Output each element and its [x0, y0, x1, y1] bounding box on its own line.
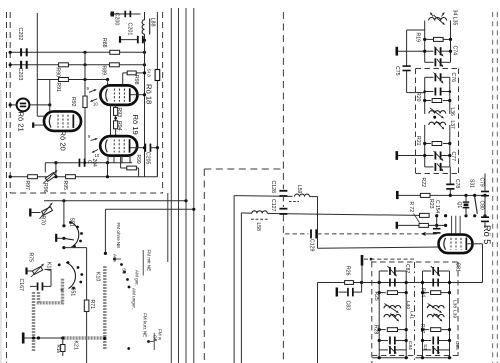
junction dots R21 — [423, 142, 451, 145]
resistor R26 — [318, 266, 362, 284]
resistor R72 — [396, 202, 446, 229]
junction dot x=49.8 — [48, 103, 51, 106]
resistor R90 — [55, 63, 69, 77]
svg-text:C85: C85 — [454, 341, 460, 350]
potentiometer R70 — [29, 203, 52, 226]
svg-text:Si 3: Si 3 — [146, 69, 152, 78]
junction dot C201 node — [143, 39, 146, 42]
svg-text:C80: C80 — [479, 201, 485, 210]
svg-text:R93: R93 — [116, 108, 122, 118]
label FM w — [154, 329, 162, 350]
svg-text:L41: L41 — [409, 311, 415, 319]
svg-text:C76: C76 — [450, 73, 456, 83]
resistor R71 — [84, 300, 95, 312]
dashed box L36 right — [458, 69, 460, 174]
svg-text:C78: C78 — [454, 179, 460, 188]
ground wire y=338 — [25, 337, 64, 339]
svg-text:R21: R21 — [415, 136, 421, 146]
capacitor C201 — [119, 23, 144, 44]
wire y=176.7 — [10, 176, 157, 178]
svg-text:R71: R71 — [89, 300, 95, 310]
svg-text:R91: R91 — [55, 83, 61, 93]
vertical wire x=37 — [37, 13, 45, 116]
junction dots C76 — [423, 90, 451, 93]
vertical wire x=49.8 — [49, 80, 51, 112]
Ro19 anode wire to C205 — [130, 147, 145, 149]
wire W2 y=213 — [241, 212, 252, 214]
junction dot between R93 R94 — [114, 117, 117, 120]
junction dot end wire x=105.4 — [104, 252, 107, 255]
svg-text:C79: C79 — [479, 178, 485, 187]
inductor L39 — [427, 314, 444, 322]
Ro19 cathode pins — [108, 156, 130, 163]
wire x=317.5 down — [317, 283, 319, 363]
label FM mit NE — [143, 250, 151, 276]
node dot on border wire y=65 — [9, 63, 12, 66]
wire y=162.7 — [45, 162, 132, 164]
block middle dash-dot divider — [414, 262, 416, 363]
rail x=157.4 — [156, 12, 158, 177]
shield box right dashed edge — [162, 12, 164, 193]
svg-text:R99: R99 — [135, 155, 141, 164]
junction dot x=107.5 y=176.7 — [106, 175, 109, 178]
resistor R21 — [415, 136, 450, 146]
inductor L37 — [429, 121, 455, 130]
C75 feed wire — [407, 30, 425, 66]
junction dot x=144.5 y=65 — [143, 63, 146, 66]
svg-text:L38: L38 — [451, 300, 457, 308]
grid arrow at Ro5 — [421, 232, 437, 236]
svg-text:R23: R23 — [428, 199, 434, 209]
svg-text:Off: Off — [153, 335, 158, 342]
capacitor C 154 — [433, 200, 441, 234]
inductor L59 — [289, 185, 318, 202]
svg-text:Rö 20: Rö 20 — [59, 131, 68, 151]
potentiometer R75 — [25, 253, 44, 278]
grid T-bar at Ro20 — [32, 122, 45, 127]
junction dot x=107.6 y=80 — [106, 78, 109, 85]
trimmer C74 lower — [425, 46, 458, 68]
svg-text:C74: C74 — [452, 46, 458, 56]
tube Ro5 top pins — [452, 216, 461, 235]
junction dots main wire right — [421, 281, 451, 284]
junction dot x=63.9 y=200.8 — [62, 199, 65, 202]
svg-text:Rö 5: Rö 5 — [482, 225, 492, 244]
resistor R91 — [55, 78, 68, 93]
resistor R27 — [421, 328, 451, 332]
wire x=86.6 to bottom — [86, 312, 88, 363]
pin arrow 9 at Ro18 — [87, 86, 97, 92]
svg-text:L40: L40 — [405, 301, 411, 309]
junction dots C77 — [423, 154, 451, 157]
cable gray left — [32, 292, 35, 352]
trimmer C77 upper — [425, 151, 450, 161]
shield box left inner dashed border — [9, 12, 11, 193]
capacitor C80 — [479, 201, 490, 229]
svg-text:S51: S51 — [69, 218, 75, 227]
svg-text:C83: C83 — [345, 301, 351, 311]
dashed box L36 left — [415, 69, 417, 174]
svg-text:R20: R20 — [415, 92, 421, 102]
svg-text:R26: R26 — [345, 266, 351, 276]
main wire y=282.5 — [362, 282, 483, 284]
svg-text:C203: C203 — [17, 68, 23, 81]
vertical rail x=85 — [84, 52, 86, 162]
resistor R23 — [420, 199, 435, 217]
svg-text:C200: C200 — [114, 13, 120, 26]
svg-text:S31: S31 — [468, 179, 474, 188]
trimmer C76 upper — [425, 73, 450, 84]
ground bar C77 wire — [396, 151, 425, 160]
svg-text:R94: R94 — [116, 121, 122, 131]
resistor R89 — [101, 63, 120, 75]
svg-text:34 L35: 34 L35 — [452, 10, 458, 26]
shield box left outer dashed border — [6, 12, 8, 363]
svg-text:C75: C75 — [394, 66, 400, 76]
center dashed line x=283.4 upper — [282, 12, 284, 189]
svg-text:L58: L58 — [255, 223, 261, 232]
dashed box L36 top — [416, 68, 459, 70]
svg-text:S51: S51 — [70, 287, 76, 296]
inductor L38 — [427, 304, 444, 314]
dash-dot box top edge y=169 — [204, 168, 283, 170]
resistor R25 — [378, 291, 408, 295]
svg-text:C205: C205 — [144, 152, 150, 165]
svg-text:10: 10 — [93, 102, 98, 107]
junction dot R98 rail — [143, 71, 146, 74]
dashed box L36 bottom — [416, 173, 459, 175]
svg-text:R25: R25 — [373, 292, 379, 301]
capacitor C 204 — [79, 159, 97, 168]
svg-text:10: 10 — [95, 153, 100, 158]
svg-text:FM ohne NE: FM ohne NE — [116, 223, 121, 249]
svg-text:C84: C84 — [407, 341, 413, 350]
bus line 4 — [193, 8, 195, 363]
dashed wire C129 to grid — [317, 233, 419, 235]
wire top-left y=52 — [10, 51, 144, 53]
wire stub C200 — [110, 13, 141, 15]
junction dot x=107.5 y=162.7 — [106, 161, 109, 164]
capacitor C200 — [111, 11, 132, 26]
wire y=80 grid feed — [37, 79, 107, 81]
svg-text:R22: R22 — [420, 178, 426, 188]
cap pair lower C84 — [378, 337, 408, 345]
wire W2 continues right — [287, 214, 420, 216]
tube Ro21 magic eye — [17, 99, 30, 132]
tube Ro20 — [44, 111, 81, 150]
svg-text:R97: R97 — [24, 181, 30, 191]
svg-text:R27: R27 — [419, 324, 425, 333]
pin arrow 10 at Ro18 — [90, 99, 99, 107]
wire y=195.4 — [396, 191, 485, 199]
resistor R92 — [70, 96, 87, 108]
inductor L36 — [429, 108, 455, 119]
cap pair bottom C85 — [423, 346, 450, 354]
cable K10 gray — [103, 266, 106, 350]
wire W1 to tube Ro5 — [318, 247, 440, 248]
resistor R20 — [415, 92, 450, 103]
block right dashed edge — [457, 262, 459, 356]
resistor R94 — [114, 121, 122, 131]
junction dot bus y=209.3 — [192, 208, 195, 211]
wire W2 corner x=241.4 — [240, 213, 242, 363]
svg-text:C202: C202 — [17, 28, 23, 41]
junction dots ground wire — [32, 336, 107, 340]
trimmer C76 lower — [425, 73, 456, 96]
tube Ro18 — [100, 84, 153, 105]
node dot border y=176.7 — [9, 175, 12, 178]
svg-text:Rö 21: Rö 21 — [17, 112, 26, 132]
switch S51 upper deck — [55, 218, 83, 248]
wire y=209.3 to bus — [105, 209, 193, 253]
pin arrow 9 at Ro19 — [88, 134, 98, 141]
svg-text:Rö 19: Rö 19 — [131, 115, 140, 135]
corner wire to R96 — [44, 163, 46, 173]
capacitor C83 — [336, 283, 362, 311]
block bottom dashed edge — [372, 355, 458, 357]
resistor R88 — [101, 38, 120, 54]
svg-text:FM w: FM w — [158, 329, 163, 341]
resistor R28 — [378, 328, 408, 332]
svg-text:C127: C127 — [270, 199, 276, 212]
inductor L88 — [142, 12, 155, 40]
resistor R19 — [415, 33, 451, 43]
shield terminal bar — [361, 255, 364, 283]
cap pair bottom C84 — [379, 346, 406, 354]
resistor R97 — [24, 175, 37, 190]
tube Ro5 — [439, 225, 493, 253]
Ro18 anode wire — [130, 94, 145, 96]
far right dashed border 1 — [492, 12, 494, 363]
capacitor C167 — [18, 270, 51, 292]
Ro5 anode wire — [468, 244, 483, 283]
L35 loop right — [450, 21, 452, 63]
svg-text:204: 204 — [91, 159, 97, 168]
switch S51 lower deck K13 — [46, 261, 84, 296]
svg-text:R24: R24 — [419, 288, 425, 297]
quartz Q1 — [456, 195, 469, 215]
tube Ro19 — [100, 115, 140, 156]
svg-text:L88: L88 — [150, 18, 156, 27]
trimmer C74 upper — [425, 47, 451, 57]
inductor L40 — [384, 304, 401, 314]
contact wire below S51 — [62, 246, 86, 249]
junction dots wire y=195.4 — [449, 194, 487, 197]
node dot border Ro21 — [9, 103, 12, 106]
svg-text:Q1: Q1 — [456, 202, 462, 209]
inductor L41 — [384, 314, 401, 322]
trimmer cap top C81 — [423, 266, 450, 277]
node dot on border wire y=52 — [9, 51, 12, 54]
svg-text:S3: S3 — [422, 344, 428, 350]
resistor R24 — [421, 291, 451, 295]
junction dot C205 right — [156, 146, 159, 149]
svg-text:R 72: R 72 — [408, 202, 414, 213]
svg-text:R96: R96 — [42, 183, 48, 193]
center dashed line x=283.4 lower — [282, 214, 284, 363]
resistor R16 hanging — [56, 338, 65, 356]
svg-text:C167: C167 — [18, 279, 24, 292]
cable gray along ground wire — [64, 336, 105, 339]
junction dot x=144.5 y=52 — [143, 51, 146, 54]
fuse Si 3 — [146, 69, 160, 81]
svg-text:R90: R90 — [55, 68, 61, 78]
resistor R22 — [420, 178, 430, 198]
junction dot x=85 y=80 — [83, 78, 86, 81]
svg-text:C77: C77 — [450, 152, 456, 162]
svg-text:C128: C128 — [270, 181, 276, 194]
svg-text:FM mit NE: FM mit NE — [147, 250, 152, 272]
svg-text:C81: C81 — [455, 263, 461, 272]
junction dot bus y=200.8 — [184, 199, 187, 202]
bus line 3 — [185, 8, 187, 363]
far right dashed border 2 — [496, 12, 498, 363]
junction dot wire y=52 x=85 — [83, 51, 86, 54]
resistor R93 — [114, 107, 122, 117]
wire y=65 — [10, 64, 144, 66]
junction dot x=85 y=162.7 — [84, 161, 87, 164]
wire S51 feed — [63, 201, 65, 226]
stub line from shield corner — [167, 193, 169, 262]
capacitor C127 — [270, 199, 287, 215]
svg-text:AM unger.: AM unger. — [132, 288, 137, 309]
capacitor C78 — [446, 167, 460, 196]
block top dashed edge — [371, 261, 459, 263]
svg-text:L36: L36 — [449, 108, 455, 117]
capacitor C79 — [479, 174, 490, 218]
capacitor C203 — [17, 61, 28, 81]
svg-text:C129: C129 — [309, 239, 315, 252]
capacitor C202 — [17, 28, 28, 57]
svg-text:R70: R70 — [40, 216, 46, 226]
svg-text:R16: R16 — [56, 345, 61, 354]
junction dot x=85 y=65 — [83, 63, 86, 66]
svg-text:R19: R19 — [415, 33, 421, 43]
junction dot anode rail — [143, 93, 146, 96]
junction dot x=55.9 y=162.7 — [54, 161, 57, 164]
dashed shield wire y=259 — [364, 258, 414, 261]
wire x=86.6 down — [86, 248, 88, 300]
filter loop verticals left — [379, 271, 406, 358]
junction dots main wire left — [378, 281, 408, 284]
bottom wire left — [372, 356, 408, 359]
svg-text:R98: R98 — [133, 75, 139, 85]
trimmer cap mid C82 — [389, 279, 396, 287]
L37 loop right — [449, 125, 451, 167]
wire W1 corner x=234.1 — [233, 196, 235, 363]
svg-text:R88: R88 — [101, 38, 107, 48]
pin arrow 10 at Ro19 — [92, 150, 100, 159]
junction dots R72 wire — [435, 224, 447, 227]
block left dashed edge — [371, 262, 373, 363]
dash-dot box left edge x=204.3 — [203, 169, 205, 363]
junction dots R19 — [423, 38, 452, 41]
svg-text:L59: L59 — [296, 185, 302, 194]
svg-text:R28: R28 — [373, 325, 379, 334]
capacitor C129 — [285, 229, 317, 251]
inductor L58 — [251, 211, 280, 231]
corner rail x=157.4 bottom — [156, 148, 158, 177]
trimmer cap mid C81 — [432, 279, 439, 287]
bus line 2 — [178, 8, 180, 363]
junction dot C205 left — [143, 146, 146, 149]
filter loop verticals right — [423, 271, 450, 358]
capacitor C128 — [270, 181, 287, 197]
L36 loop right — [449, 77, 451, 114]
wire W1 y=195.6 — [234, 195, 292, 198]
svg-text:R75: R75 — [28, 253, 34, 263]
junction dot R26 right — [360, 281, 363, 284]
svg-text:FM kurz NE: FM kurz NE — [143, 313, 148, 337]
capacitor C75 — [394, 65, 425, 92]
cap pair lower C85 — [421, 337, 451, 345]
svg-text:L39: L39 — [451, 310, 457, 318]
resistor R98 — [123, 71, 145, 85]
junction dots W2 right — [435, 214, 487, 217]
wire Ro21 right — [29, 104, 49, 106]
svg-text:R89: R89 — [101, 66, 107, 76]
junction dots C74 — [423, 50, 452, 53]
svg-text:AM ger.: AM ger. — [135, 270, 140, 286]
vertical x=107.5 — [107, 163, 109, 177]
bus line 1 — [170, 8, 172, 363]
shield box bottom dashed edge — [10, 192, 163, 194]
vertical x=55.9 — [55, 163, 57, 177]
svg-text:K10: K10 — [95, 272, 101, 281]
Ro18 bottom pin b — [115, 105, 117, 138]
L37 loop left — [424, 125, 426, 167]
B+ rail x=144.5 — [144, 40, 146, 176]
switch position dots — [113, 258, 153, 350]
svg-text:R95: R95 — [62, 181, 68, 191]
bottom wire right — [416, 356, 452, 359]
trimmer C77 lower — [425, 152, 456, 172]
center dashed line between caps — [282, 196, 284, 207]
ground bar bottom left — [22, 333, 25, 344]
L35 loop left — [424, 21, 426, 63]
scan edge shading — [0, 90, 2, 363]
Ro18 bottom pin a — [110, 105, 112, 138]
L36 loop left — [424, 77, 426, 114]
resistor R95 — [62, 175, 75, 190]
resistor R99 — [121, 155, 141, 177]
ground bar C74 wire — [396, 47, 425, 56]
capacitor C205 — [144, 144, 157, 165]
inductor L35 — [429, 10, 458, 26]
potentiometer R96 — [42, 170, 58, 193]
svg-text:K21: K21 — [73, 341, 79, 350]
wire y=200.8 — [44, 200, 186, 202]
svg-text:C82: C82 — [404, 264, 410, 273]
wire Ro21 left — [10, 104, 16, 106]
junction dots R20 — [423, 99, 451, 102]
svg-text:R92: R92 — [70, 97, 76, 107]
junction dot x=55.9 y=176.7 — [54, 175, 57, 178]
switch S31 — [468, 179, 477, 214]
svg-text:C201: C201 — [127, 23, 133, 36]
cable gray to switch — [39, 279, 63, 303]
svg-text:C 154: C 154 — [434, 200, 440, 214]
wire W1 corner x=317.5 — [317, 197, 319, 249]
junction dot L36 center — [433, 116, 436, 119]
trimmer cap top C82 — [379, 266, 406, 277]
